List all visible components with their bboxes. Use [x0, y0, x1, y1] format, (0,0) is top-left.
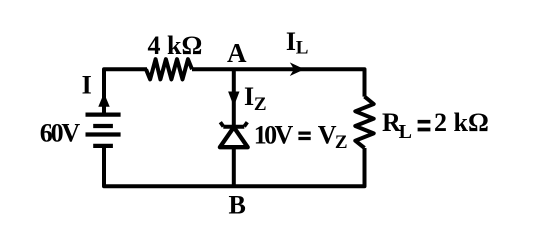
arrowhead: current IL (rightward, on top wire) — [290, 62, 305, 76]
svg-text:L: L — [399, 121, 412, 143]
svg-text:Z: Z — [254, 94, 267, 115]
svg-text:B: B — [229, 190, 246, 219]
zener diode DZ anode triangle — [220, 127, 248, 147]
resistor R1 4 kOhm (zigzag, top wire) — [146, 59, 192, 79]
svg-text:2 kΩ: 2 kΩ — [434, 108, 489, 137]
wire: left vertical from battery top plate up to top-left corner, then right to R1 — [104, 69, 147, 114]
battery B1 long plate (third) — [86, 132, 121, 136]
svg-text:V: V — [318, 121, 337, 150]
wire: zener anode down to node B on bottom wire — [232, 147, 236, 187]
arrowhead: current IZ (downward, on middle branch) — [228, 92, 239, 107]
resistor RL 2 kOhm (zigzag, right branch) — [355, 97, 373, 148]
label: equals sign of 10V = VZ — [298, 133, 310, 138]
svg-text:60V: 60V — [40, 118, 81, 147]
battery B1 long plate (top, positive) — [86, 112, 121, 116]
zener diode DZ left bent tab — [220, 122, 223, 126]
wire: top from R1 through node A to top-right corner, down to RL — [192, 69, 365, 96]
svg-text:I: I — [244, 82, 254, 111]
svg-text:10V: 10V — [254, 121, 294, 150]
zener diode DZ right bent tab — [244, 122, 247, 126]
battery B1 short plate (second) — [93, 124, 113, 128]
arrowhead: current I (upward, on left wire) — [98, 93, 109, 107]
svg-text:I: I — [82, 71, 92, 100]
svg-text:A: A — [227, 38, 247, 68]
svg-text:4 kΩ: 4 kΩ — [148, 31, 203, 60]
wire: middle branch from node A down to zener cathode — [232, 69, 236, 125]
svg-text:L: L — [296, 38, 309, 59]
battery B1 short plate (bottom, negative) — [93, 144, 113, 148]
wire: right vertical below RL, bottom wire to node B and bottom-left corner, up to battery bottom plate — [104, 146, 365, 186]
svg-text:I: I — [286, 27, 296, 56]
zener diode DZ cathode bar — [223, 125, 244, 129]
label: equals sign of RL = 2 kOhm — [418, 122, 431, 130]
svg-text:Z: Z — [335, 132, 348, 153]
